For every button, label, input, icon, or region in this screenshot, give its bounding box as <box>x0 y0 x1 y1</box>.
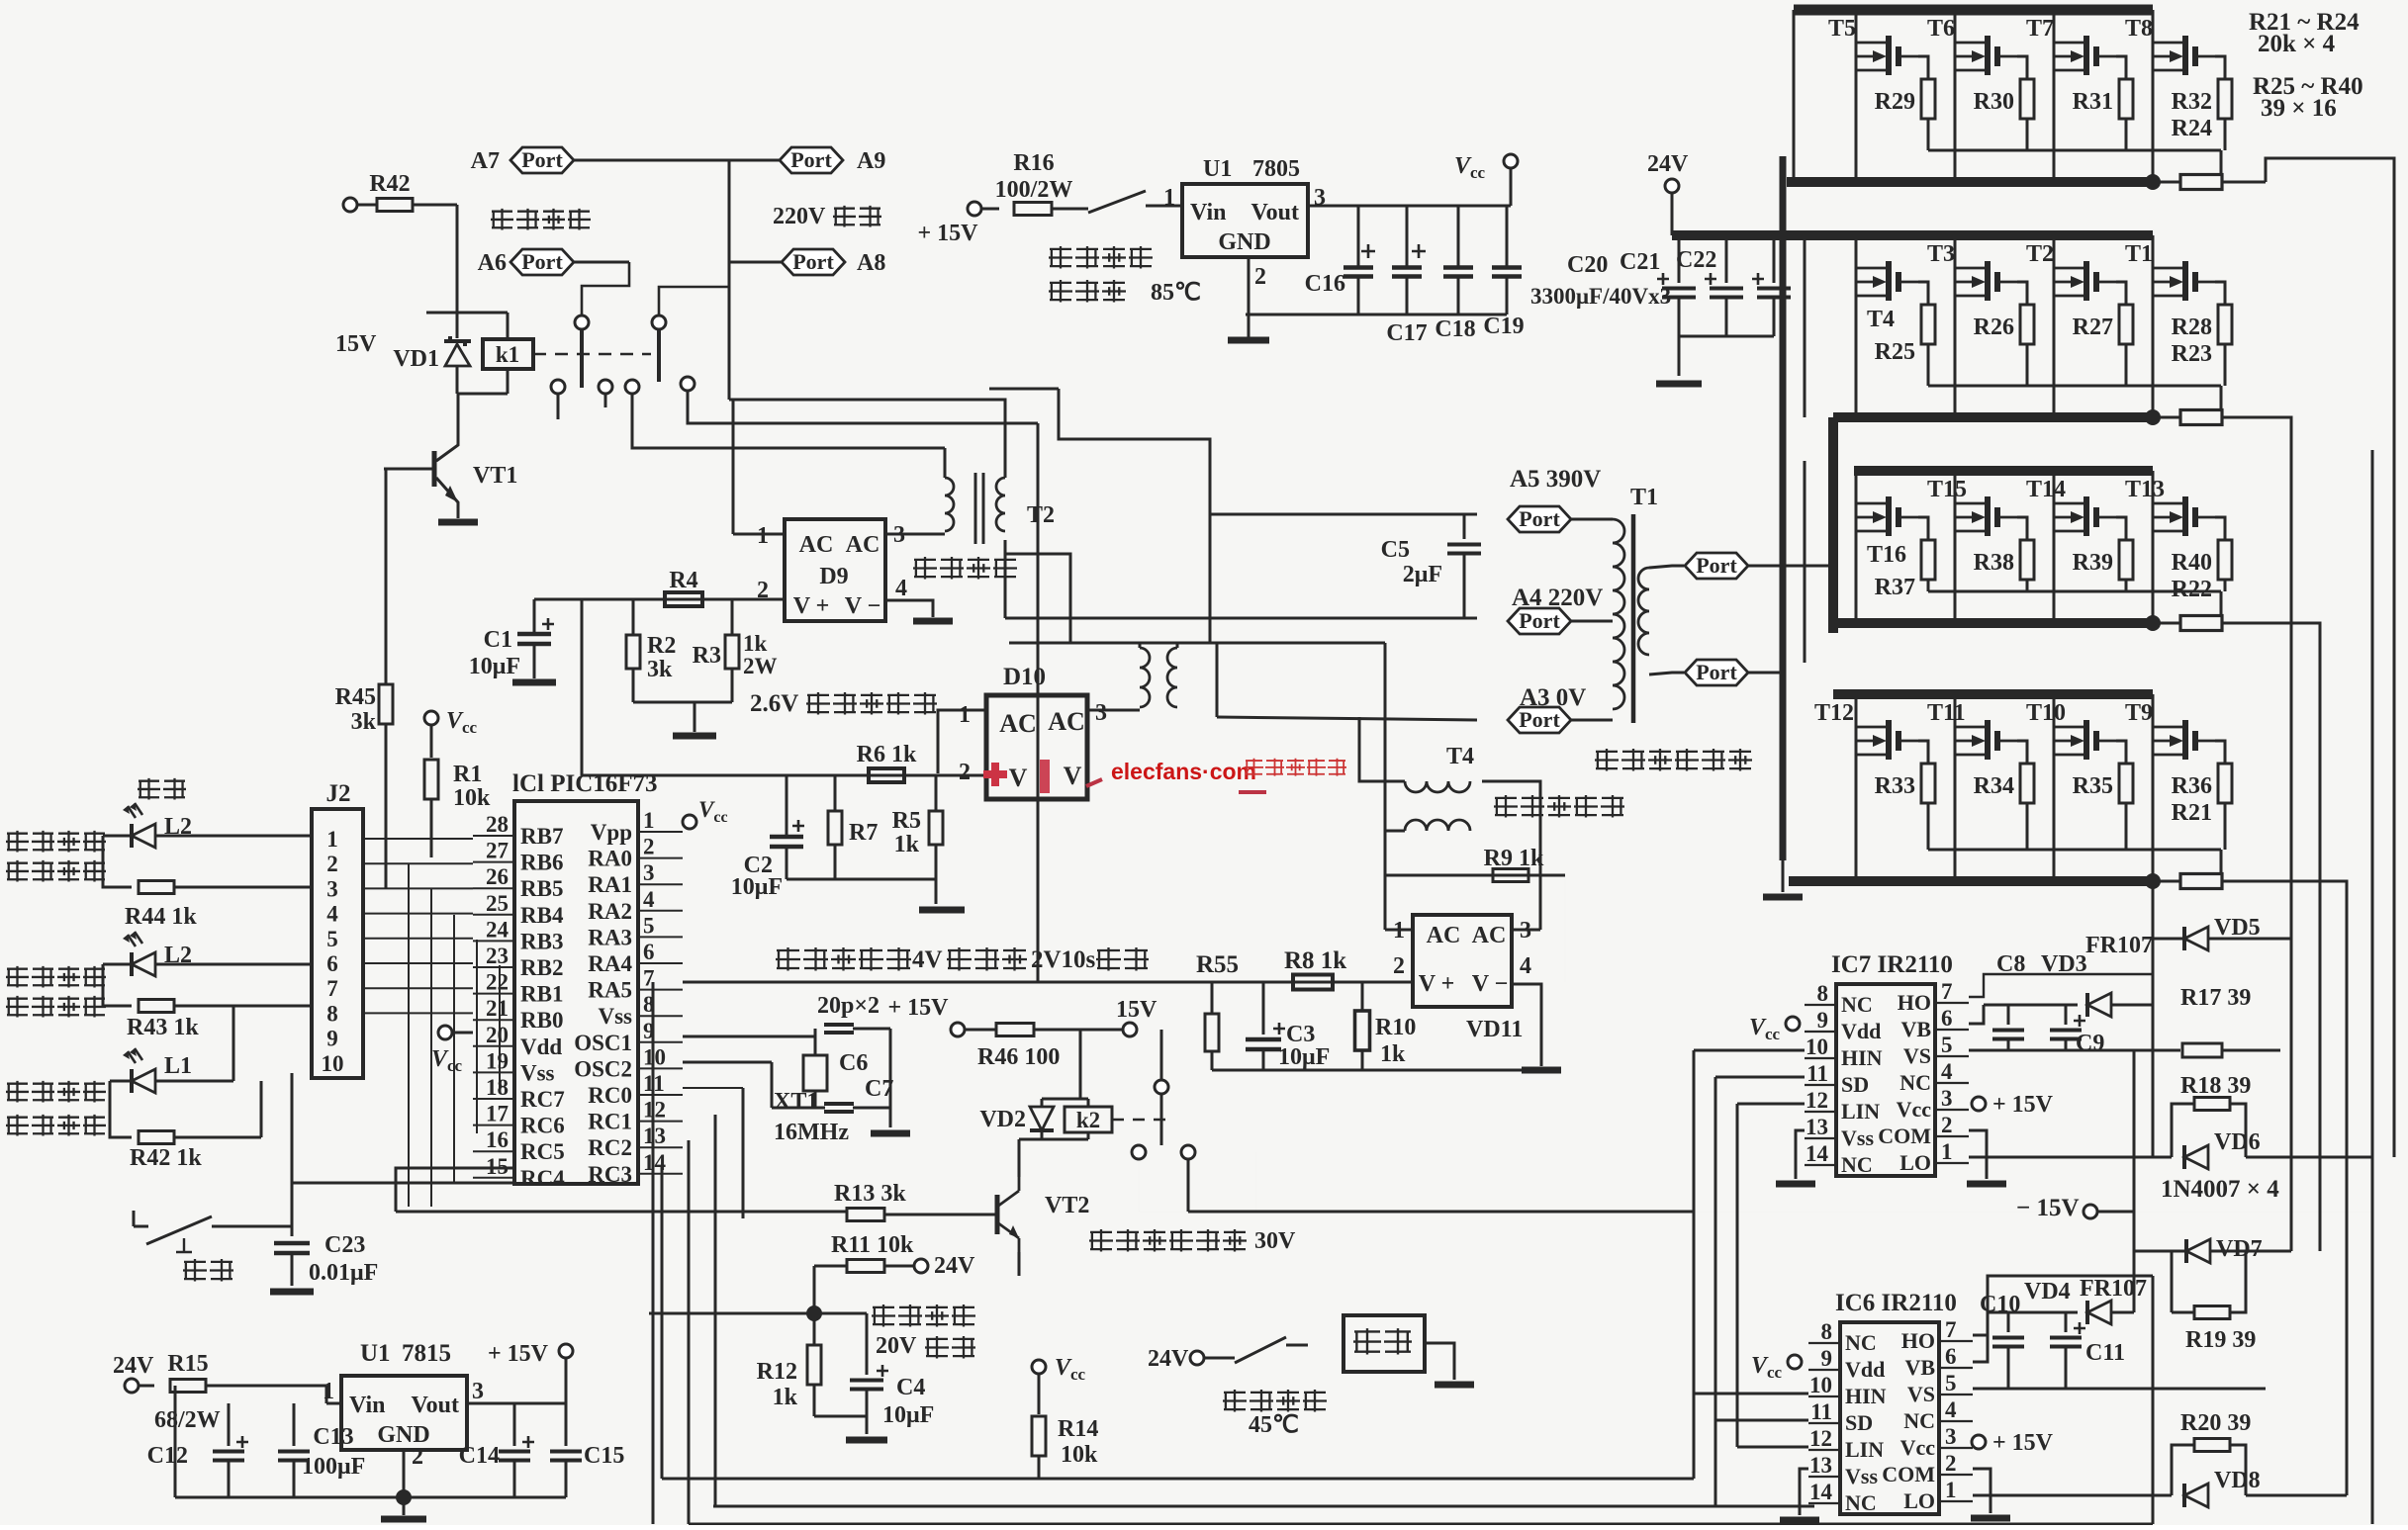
wire k2 top <box>1079 1030 1082 1099</box>
svg-text:R42: R42 <box>369 171 410 197</box>
bus vertical left b <box>1805 417 1833 663</box>
transistor T16 cell <box>1856 471 1935 623</box>
terminal Vcc top <box>1454 153 1518 182</box>
ground C23 <box>270 1289 314 1296</box>
svg-text:Vdd: Vdd <box>1841 1019 1881 1043</box>
wire C3 rail <box>1212 1069 1541 1072</box>
capacitor C5 <box>1381 514 1481 618</box>
pins IC1 <box>473 808 683 1191</box>
terminal Vcc Vpp <box>683 797 728 829</box>
wire contact-vt2 <box>1256 1152 2372 1212</box>
svg-text:7: 7 <box>326 976 338 1001</box>
svg-text:2V10s: 2V10s <box>1031 946 1096 973</box>
label mains sampling <box>913 557 1017 580</box>
transistor VT1 <box>384 394 517 518</box>
node A4 port <box>1508 585 1613 634</box>
transistor T3 cell <box>1927 235 2034 417</box>
svg-text:VD2: VD2 <box>979 1107 1026 1132</box>
svg-text:R26: R26 <box>1974 315 2014 340</box>
wire 7815 in <box>206 1386 341 1403</box>
svg-text:2: 2 <box>412 1444 423 1470</box>
wire long y1495 <box>662 1478 1694 1481</box>
svg-text:28: 28 <box>486 812 509 837</box>
wire IC6 VB <box>1973 1312 1988 1362</box>
svg-text:C19: C19 <box>1483 314 1524 339</box>
svg-text:R20 39: R20 39 <box>2180 1410 2251 1436</box>
svg-text:LO: LO <box>1903 1488 1935 1513</box>
wire 2176 vert2 <box>2152 1276 2155 1524</box>
capacitor C7 <box>683 1062 893 1112</box>
transistor T5 cell <box>1828 10 1935 182</box>
terminal +15V bl <box>488 1341 573 1367</box>
svg-text:COM: COM <box>1882 1462 1935 1486</box>
terminal +15V IC6 <box>1972 1430 2054 1456</box>
wire sec1 port <box>1649 566 1684 568</box>
svg-text:15V: 15V <box>1116 997 1158 1023</box>
ground C4 <box>846 1437 887 1444</box>
bridge D9 <box>757 519 907 621</box>
svg-text:1: 1 <box>323 1379 334 1404</box>
svg-text:GND: GND <box>1218 229 1270 255</box>
svg-text:RC5: RC5 <box>520 1139 565 1164</box>
pin J2-3 <box>326 876 338 901</box>
svg-text:22: 22 <box>486 970 509 995</box>
capacitor C16 <box>1305 206 1375 315</box>
wire port bus vertical <box>728 160 731 400</box>
svg-text:NC: NC <box>1841 1152 1873 1177</box>
svg-text:R18 39: R18 39 <box>2180 1073 2251 1099</box>
svg-text:C20: C20 <box>1567 252 1608 278</box>
svg-text:C9: C9 <box>2076 1031 2104 1056</box>
node A5 port <box>1508 466 1613 532</box>
svg-text:R1: R1 <box>453 762 482 787</box>
resistor R46 100 <box>965 1024 1130 1071</box>
svg-text:4: 4 <box>1945 1397 1957 1422</box>
svg-text:23: 23 <box>486 944 509 968</box>
svg-text:45℃: 45℃ <box>1249 1412 1299 1438</box>
wire fan gnd <box>1425 1343 1474 1385</box>
bus drain row4 <box>1833 689 2153 699</box>
wire D10 pin2 <box>582 774 986 777</box>
wire VT1 base R45 <box>385 469 388 684</box>
svg-text:6: 6 <box>643 940 655 964</box>
diode VD2 <box>979 1099 1054 1139</box>
svg-text:RA3: RA3 <box>588 925 632 949</box>
wire L2a left <box>103 836 132 887</box>
transistor T1 cell <box>2125 235 2232 417</box>
LED L2b <box>123 932 192 976</box>
wire T12 col <box>1176 643 1179 648</box>
svg-text:R6 1k: R6 1k <box>857 742 917 767</box>
svg-text:6: 6 <box>326 951 338 976</box>
resistor R14 10k <box>1032 1416 1098 1479</box>
svg-text:7: 7 <box>1945 1317 1957 1342</box>
svg-text:Vin: Vin <box>349 1393 385 1418</box>
svg-text:7805: 7805 <box>1252 156 1300 182</box>
resistor R6 1k <box>857 742 917 782</box>
resistor R1 10k <box>424 760 491 857</box>
wire IC6 com gnd <box>1971 1469 2010 1518</box>
wire 7805 out <box>1308 168 1511 206</box>
relay k2 <box>1065 1099 1112 1139</box>
wire C2 rail <box>787 879 936 904</box>
svg-text:10: 10 <box>322 1051 344 1076</box>
transistor T8 cell <box>2125 10 2232 182</box>
svg-text:6: 6 <box>1945 1344 1957 1369</box>
svg-text:T9: T9 <box>2125 700 2153 726</box>
svg-text:RB0: RB0 <box>520 1008 563 1033</box>
wire relay row to mains <box>688 391 1038 423</box>
capacitor C13 <box>278 1403 365 1497</box>
svg-text:R29: R29 <box>1875 89 1915 115</box>
svg-text:T15: T15 <box>1927 477 1967 502</box>
svg-text:4: 4 <box>643 887 655 912</box>
svg-text:C5: C5 <box>1381 537 1410 563</box>
wire r12 c4 bottom <box>814 1416 867 1434</box>
wire k1 loop bottom <box>457 393 508 396</box>
wire RC4 left <box>396 1168 514 1212</box>
ground VT1 <box>438 519 478 526</box>
svg-text:VD11: VD11 <box>1466 1017 1523 1042</box>
wire C8 rail <box>1984 1004 2078 1007</box>
svg-text:VS: VS <box>1907 1382 1935 1406</box>
svg-text:− 15V: − 15V <box>2016 1195 2080 1221</box>
svg-text:C10: C10 <box>1980 1292 2020 1317</box>
bus source row1 <box>1787 177 2153 187</box>
wire relay to T2 <box>729 400 1005 478</box>
ground C20 <box>1656 381 1702 388</box>
svg-text:1: 1 <box>643 808 655 833</box>
capacitor C3 <box>1246 982 1330 1070</box>
svg-text:C18: C18 <box>1435 316 1475 342</box>
svg-text:R3: R3 <box>693 643 721 669</box>
resistor R17 39 <box>2153 985 2280 1057</box>
pin J2-6 <box>326 951 338 976</box>
svg-text:OSC1: OSC1 <box>574 1031 632 1055</box>
svg-text:Port: Port <box>790 147 832 172</box>
svg-text:T4: T4 <box>1867 307 1895 332</box>
svg-text:8: 8 <box>326 1001 338 1026</box>
wire T2-A4 vert <box>1004 554 1007 618</box>
wire L1 left <box>110 1081 132 1137</box>
LED L2a <box>123 803 192 848</box>
label green-charge <box>6 860 106 882</box>
svg-text:T1: T1 <box>2125 241 2153 267</box>
node A7 port <box>471 147 729 174</box>
svg-text:10μF: 10μF <box>882 1402 934 1428</box>
transistor VT2 <box>997 1177 1089 1252</box>
wire k2 right <box>1139 1159 1272 1212</box>
svg-text:68/2W: 68/2W <box>154 1407 221 1433</box>
svg-text:VD1: VD1 <box>393 346 439 372</box>
label R21-R24 group <box>2249 9 2360 57</box>
node A9 port <box>729 147 885 174</box>
svg-text:R36: R36 <box>2172 773 2212 799</box>
bus source row3 <box>1833 618 2153 628</box>
transistor T15 cell <box>1927 471 2034 623</box>
svg-text:R9 1k: R9 1k <box>1484 846 1544 871</box>
svg-text:Vpp: Vpp <box>591 820 632 845</box>
svg-text:IC7 IR2110: IC7 IR2110 <box>1831 951 1953 978</box>
svg-text:R8 1k: R8 1k <box>1284 947 1346 974</box>
svg-text:VD5: VD5 <box>2214 915 2261 941</box>
svg-text:2: 2 <box>959 760 971 785</box>
svg-text:R12: R12 <box>757 1359 797 1385</box>
ground R5 <box>919 907 965 914</box>
svg-text:7: 7 <box>1941 979 1953 1004</box>
svg-text:VT1: VT1 <box>473 463 517 489</box>
wire R9 line <box>1385 874 1565 877</box>
svg-text:220V: 220V <box>773 204 826 229</box>
svg-text:R44 1k: R44 1k <box>125 904 197 930</box>
wire A4 line <box>1005 617 1477 620</box>
svg-text:R10: R10 <box>1375 1015 1416 1040</box>
svg-text:L1: L1 <box>164 1053 192 1079</box>
svg-text:3k: 3k <box>351 709 377 735</box>
label main transformer <box>1595 749 1752 771</box>
svg-text:2: 2 <box>1945 1451 1957 1476</box>
svg-text:R13 3k: R13 3k <box>834 1181 906 1207</box>
svg-text:A9: A9 <box>857 148 885 174</box>
svg-text:RA2: RA2 <box>588 899 632 924</box>
svg-text:C16: C16 <box>1305 271 1345 297</box>
svg-text:J2: J2 <box>326 780 351 807</box>
wire VD11 vert <box>1384 643 1387 930</box>
terminal 15V k2 <box>1116 997 1158 1036</box>
pin J2-1 <box>326 827 338 852</box>
transistor T4 cell <box>1856 235 1935 417</box>
wire osc <box>815 1035 825 1037</box>
diode VD7 <box>2134 1236 2291 1263</box>
svg-text:HIN: HIN <box>1845 1384 1887 1408</box>
watermark elecfans <box>983 759 1346 793</box>
svg-text:+ 15V: + 15V <box>917 221 978 246</box>
IC IC7 IR2110 <box>1805 951 1969 1177</box>
junction row3 <box>2145 615 2161 631</box>
svg-text:V +: V + <box>793 593 830 619</box>
svg-text:IC6 IR2110: IC6 IR2110 <box>1835 1290 1957 1316</box>
pin J2-5 <box>326 927 338 951</box>
svg-text:T12: T12 <box>1814 700 1854 726</box>
svg-text:8: 8 <box>1817 981 1829 1006</box>
svg-text:R37: R37 <box>1875 575 1915 600</box>
svg-text:R15: R15 <box>167 1351 208 1377</box>
svg-text:4: 4 <box>326 902 338 927</box>
capacitor C10 <box>1980 1292 2024 1389</box>
svg-text:AC: AC <box>846 532 880 558</box>
svg-text:24V: 24V <box>113 1353 154 1379</box>
svg-text:3: 3 <box>643 860 655 885</box>
svg-text:Vout: Vout <box>1251 200 1299 225</box>
svg-text:U1: U1 <box>360 1340 391 1367</box>
wire C10 rail <box>1988 1311 2078 1314</box>
terminal +15V R16 <box>917 202 981 246</box>
svg-text:3: 3 <box>1941 1086 1953 1111</box>
svg-text:8: 8 <box>1821 1319 1833 1344</box>
wire D9 pin4 <box>885 600 953 621</box>
svg-text:24V: 24V <box>1148 1346 1189 1372</box>
relay k1 <box>483 339 533 394</box>
bus drain row3 <box>1854 466 2153 476</box>
svg-text:C14: C14 <box>459 1443 500 1469</box>
resistor R45 3k <box>335 684 393 889</box>
svg-text:2: 2 <box>643 835 655 859</box>
label 20V off <box>876 1333 975 1359</box>
wire 2176 vert <box>2152 881 2155 1157</box>
svg-text:VB: VB <box>1904 1355 1935 1380</box>
pin J2-2 <box>326 852 338 876</box>
svg-text:k1: k1 <box>496 342 519 367</box>
wire y444 loop <box>1059 389 1210 643</box>
svg-text:10μF: 10μF <box>1278 1044 1330 1070</box>
svg-text:Vcc: Vcc <box>1897 1097 1932 1122</box>
label 220V output <box>773 204 881 229</box>
bridge D10 <box>959 664 1107 799</box>
node A8 port <box>729 249 885 276</box>
wire VD11 pin4 <box>1512 984 1561 1070</box>
svg-text:1: 1 <box>1163 185 1175 211</box>
wire 7815 gnd <box>175 1386 566 1497</box>
svg-text:24: 24 <box>486 917 509 942</box>
bus drain row2 <box>1787 230 2153 240</box>
node A6 port <box>478 249 629 276</box>
svg-text:LO: LO <box>1899 1150 1931 1175</box>
wire IC7 HO <box>1969 974 2153 997</box>
wire VT2 collector <box>1019 1139 1042 1177</box>
wire relay row2 <box>632 394 945 448</box>
svg-text:NC: NC <box>1845 1490 1877 1515</box>
svg-text:VD6: VD6 <box>2214 1129 2261 1155</box>
bridge VD11 <box>1393 915 1531 1007</box>
wire L2b left <box>103 964 132 1006</box>
svg-text:T6: T6 <box>1927 16 1955 42</box>
svg-text:9: 9 <box>1817 1008 1829 1033</box>
resistor R55 body <box>1205 982 1219 1070</box>
svg-text:13: 13 <box>1806 1115 1828 1139</box>
resistor R11 10k <box>814 1232 915 1313</box>
svg-text:RB7: RB7 <box>520 824 563 849</box>
transformer D10 side <box>1140 648 1177 707</box>
label overload-prot <box>6 1115 106 1136</box>
transformer T1 secondary <box>1638 568 1649 655</box>
label R25-R40 group <box>2253 73 2363 122</box>
capacitor C8 <box>1992 951 2025 1050</box>
resistor gate row4 <box>2153 874 2266 889</box>
svg-text:3k: 3k <box>647 657 673 682</box>
svg-text:4: 4 <box>895 576 907 601</box>
svg-text:T10: T10 <box>2026 700 2066 726</box>
capacitor C21 <box>1620 235 1743 336</box>
svg-text:T1: T1 <box>1630 485 1658 510</box>
switch fan <box>1204 1337 1308 1363</box>
pin J2-4 <box>326 902 338 927</box>
wire T2 left top <box>944 448 947 478</box>
wire J2-IC bundle <box>363 839 473 1013</box>
svg-text:3: 3 <box>1945 1424 1957 1449</box>
terminal Vcc R14 <box>1032 1355 1086 1414</box>
label mains-input <box>491 209 591 230</box>
svg-text:13: 13 <box>1809 1453 1832 1478</box>
resistor R42 1k <box>130 1081 261 1171</box>
resistor R4 <box>665 568 702 606</box>
svg-text:15: 15 <box>486 1154 509 1179</box>
svg-text:RC3: RC3 <box>588 1162 632 1187</box>
svg-text:20: 20 <box>486 1023 509 1047</box>
svg-text:VD7: VD7 <box>2216 1236 2263 1262</box>
node T1 port lower <box>1685 660 1781 685</box>
transformer T4 <box>1405 744 1474 831</box>
wire long y1523 <box>713 1505 1814 1508</box>
pin J2-7 <box>326 976 338 1001</box>
junction row2 <box>2145 409 2161 425</box>
wire LO IC7 <box>1969 1156 2172 1159</box>
wire mid vert 2157 <box>2133 1050 2136 1312</box>
svg-text:R46 100: R46 100 <box>977 1044 1060 1070</box>
capacitor C4 <box>850 1313 934 1428</box>
loop R20 VD8 <box>2172 1410 2251 1495</box>
junction row4 <box>2145 873 2161 889</box>
svg-text:RC7: RC7 <box>520 1087 565 1112</box>
svg-text:18: 18 <box>486 1075 509 1100</box>
svg-text:k2: k2 <box>1076 1108 1100 1132</box>
transformer T1 core <box>1631 514 1636 723</box>
svg-text:19: 19 <box>486 1048 509 1073</box>
wire k2 stubs <box>1042 1099 1088 1139</box>
wire LO IC6 <box>1973 1494 2172 1497</box>
svg-text:AC: AC <box>1472 923 1507 948</box>
svg-text:R25: R25 <box>1875 339 1915 365</box>
svg-text:3300μF/40Vx3: 3300μF/40Vx3 <box>1530 284 1671 309</box>
wire D10 pin1 loop <box>938 710 986 773</box>
svg-text:Port: Port <box>1696 660 1737 684</box>
svg-text:RB4: RB4 <box>520 903 564 928</box>
resistor R16 <box>981 150 1088 216</box>
svg-text:R35: R35 <box>2073 773 2113 799</box>
svg-text:HO: HO <box>1898 990 1931 1015</box>
svg-text:+ 15V: + 15V <box>488 1341 549 1367</box>
svg-text:C17: C17 <box>1386 320 1427 346</box>
svg-text:16MHz: 16MHz <box>774 1120 849 1145</box>
svg-text:V: V <box>1009 764 1028 792</box>
svg-text:C21: C21 <box>1620 249 1660 275</box>
svg-text:Vdd: Vdd <box>520 1035 562 1059</box>
resistor R2 3k <box>626 599 676 702</box>
label battery detect <box>872 1305 975 1327</box>
svg-text:R31: R31 <box>2073 89 2113 115</box>
svg-text:AC: AC <box>1427 923 1461 948</box>
svg-text:R4: R4 <box>669 568 697 593</box>
svg-text:85℃: 85℃ <box>1151 280 1201 306</box>
wire IC7 VB <box>1969 1005 1984 1024</box>
svg-text:A5 390V: A5 390V <box>1510 466 1601 493</box>
wire riser x696 <box>688 1140 691 1524</box>
resistor gate row2 <box>2153 410 2266 425</box>
svg-text:C23: C23 <box>324 1232 365 1258</box>
svg-text:T4: T4 <box>1446 744 1474 769</box>
capacitor C20 <box>1567 235 1696 362</box>
svg-text:RA1: RA1 <box>588 872 632 897</box>
capacitor C15 <box>550 1403 624 1497</box>
svg-text:R24: R24 <box>2172 116 2212 141</box>
svg-text:R23: R23 <box>2172 341 2212 367</box>
label temp switch <box>1223 1390 1327 1438</box>
svg-text:R33: R33 <box>1875 773 1915 799</box>
box fan <box>1343 1315 1425 1372</box>
svg-text:R40: R40 <box>2172 550 2212 576</box>
svg-text:2.6V: 2.6V <box>750 690 798 717</box>
label start <box>183 1259 233 1282</box>
svg-text:C6: C6 <box>839 1050 868 1076</box>
